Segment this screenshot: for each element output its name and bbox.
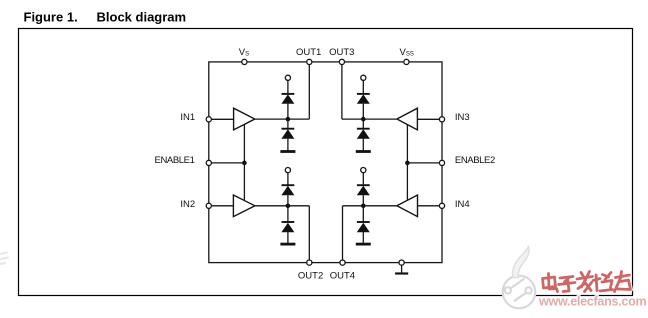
wire OUT4 horizontal: [343, 205, 398, 207]
terminal ENABLE1: [206, 160, 211, 165]
svg-text:OUT2: OUT2: [298, 270, 323, 281]
terminal Vs: [242, 59, 247, 64]
IC boundary: [209, 62, 442, 263]
wire IN3: [417, 118, 442, 120]
wire OUT3 horizontal: [342, 118, 397, 120]
wire OUT2 drop: [308, 206, 310, 263]
wire OUT1 horizontal: [255, 118, 309, 120]
watermark logo circle: [503, 246, 536, 309]
svg-text:ENABLE2: ENABLE2: [455, 155, 495, 166]
watermark edge streaks: [0, 253, 8, 265]
svg-text:IN4: IN4: [455, 199, 470, 210]
svg-text:VSS: VSS: [400, 47, 414, 58]
wire OUT3 drop: [341, 62, 343, 119]
svg-text:IN2: IN2: [180, 199, 195, 210]
terminal OUT2: [307, 260, 312, 265]
figure frame: [19, 29, 633, 296]
buffer A3: [397, 108, 418, 130]
terminal ENABLE2: [439, 160, 444, 165]
wire ENABLE1 horizontal: [209, 162, 245, 164]
terminal Vss: [404, 59, 409, 64]
svg-text:OUT1: OUT1: [296, 47, 321, 58]
terminal OUT4: [340, 260, 345, 265]
wire OUT1 drop: [308, 62, 310, 119]
svg-text:Block diagram: Block diagram: [97, 9, 187, 24]
svg-text:Figure 1.: Figure 1.: [24, 9, 78, 24]
terminal IN4: [439, 203, 444, 208]
terminal OUT3: [339, 59, 344, 64]
terminal IN3: [439, 117, 444, 122]
terminal GND: [399, 260, 404, 265]
wire OUT4 drop: [342, 206, 344, 263]
watermark logo backdrop: [504, 277, 535, 308]
wire IN4: [418, 205, 443, 207]
svg-text:IN1: IN1: [180, 112, 195, 123]
junction ENABLE1: [242, 161, 247, 166]
terminal IN2: [206, 203, 211, 208]
buffer A4: [397, 195, 418, 217]
ground stem: [401, 263, 403, 273]
watermark white halo: [543, 272, 631, 292]
svg-text:VS: VS: [239, 47, 249, 58]
buffer A1: [234, 108, 255, 130]
terminal IN1: [206, 117, 211, 122]
wire IN1: [209, 118, 234, 120]
figure title: [24, 9, 187, 24]
svg-text:IN3: IN3: [455, 112, 470, 123]
svg-text:OUT3: OUT3: [329, 47, 354, 58]
wire IN2: [209, 205, 234, 207]
ground bar: [395, 272, 408, 274]
watermark chinese text (stylized strokes): [543, 272, 631, 292]
svg-text:www.elecfans.com: www.elecfans.com: [538, 295, 647, 309]
diode pair D1 (OUT1 clamp): [280, 75, 295, 151]
buffer A2: [233, 195, 255, 217]
svg-text:OUT4: OUT4: [330, 270, 355, 281]
junction ENABLE2: [405, 161, 410, 166]
svg-text:ENABLE1: ENABLE1: [155, 155, 195, 166]
diode pair D3 (OUT3 clamp): [356, 75, 371, 151]
diode pair D4 (OUT4 clamp): [356, 168, 371, 245]
wire ENABLE2 vertical: [406, 124, 408, 200]
diode pair D2 (OUT2 clamp): [280, 168, 295, 245]
wire OUT2 horizontal: [255, 205, 309, 207]
terminal OUT1: [307, 59, 312, 64]
wire ENABLE1 vertical: [243, 125, 245, 201]
wire ENABLE2 horizontal: [407, 162, 442, 164]
